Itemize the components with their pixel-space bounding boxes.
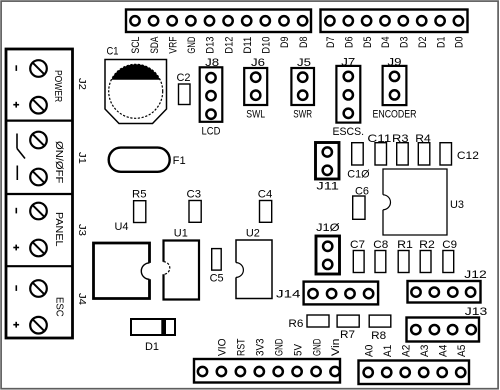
svg-text:D13: D13 [205,37,217,54]
svg-text:U3: U3 [450,199,464,211]
capacitor C4 body [260,201,272,223]
svg-text:D1: D1 [145,341,159,353]
svg-text:VRF: VRF [167,36,179,53]
screw terminal J1 pin 2 [30,169,47,186]
svg-text:GND: GND [311,338,323,356]
svg-text:R8: R8 [371,330,386,342]
svg-text:J2: J2 [76,78,87,90]
screw terminal J2 pin 2 [30,97,47,114]
header J14 pin 4 [364,289,373,298]
pin RST [236,367,245,376]
svg-text:J9: J9 [388,56,402,68]
svg-text:D1: D1 [435,37,447,48]
IC U4 body [94,243,150,299]
svg-text:C8: C8 [373,239,388,251]
pin D3 [399,16,408,25]
header J12 pin 3 [448,287,457,296]
header J5 body [291,68,314,105]
svg-text:J8: J8 [205,57,219,69]
header J14 body [304,282,379,305]
header J14 pin 1 [308,289,317,298]
svg-text:J1Ø: J1Ø [316,222,340,234]
pin A2 [401,368,410,377]
svg-text:VIO: VIO [217,338,229,356]
svg-text:J1: J1 [76,152,87,164]
header J8 body [200,67,223,122]
svg-text:C1Ø: C1Ø [347,168,370,180]
svg-text:PANEL: PANEL [53,212,65,247]
pin Vin [330,367,339,376]
IC U1 body [164,241,200,300]
IC U3 notch [383,195,391,210]
svg-text:R2: R2 [419,239,435,251]
svg-text:R1: R1 [397,239,413,251]
svg-text:D6: D6 [344,37,356,48]
svg-text:C4: C4 [258,188,273,200]
minus mark J3 [15,208,17,214]
header J8 pin 2 [206,91,215,100]
svg-text:J7: J7 [341,56,355,68]
header J13 pin 3 [448,325,457,334]
svg-text:Vin: Vin [330,339,342,357]
svg-text:J11: J11 [316,180,339,192]
svg-text:D11: D11 [242,37,254,54]
svg-text:POWER: POWER [52,70,64,103]
svg-text:A4: A4 [437,345,449,357]
diode D1 body [131,319,175,335]
header J14 pin 2 [327,289,336,298]
svg-text:3V3: 3V3 [255,339,267,357]
svg-text:U2: U2 [246,227,260,239]
header J8 pin 3 [206,110,215,119]
svg-text:D5: D5 [362,37,374,48]
svg-text:A0: A0 [363,345,375,357]
header J5 pin 2 [298,91,307,100]
header J7 pin 2 [344,90,353,99]
svg-text:D2: D2 [417,37,429,48]
pin D12 [223,16,232,25]
svg-text:GND: GND [273,338,285,356]
capacitor C3 body [189,201,201,223]
header J10 body [316,236,340,274]
svg-text:C1: C1 [107,46,119,58]
header J8 pin 1 [206,73,215,82]
pin D11 [242,16,251,25]
svg-text:J4: J4 [76,293,87,305]
resistor R4 body [418,143,430,165]
svg-text:F1: F1 [173,155,186,167]
capacitor C9 body [443,251,454,273]
pin A1 [382,368,391,377]
header J12 pin 2 [430,287,439,296]
header J6 body [244,68,267,105]
svg-text:D0: D0 [454,37,466,48]
header J6 pin 2 [251,91,260,100]
pin GND [311,367,320,376]
pin A3 [419,368,428,377]
pin header bottom-left (power) body [194,359,340,383]
svg-text:ESC: ESC [53,297,65,317]
header J13 pin 2 [430,325,439,334]
svg-text:R4: R4 [415,133,431,145]
svg-text:J5: J5 [297,57,311,69]
header J10 pin 2 [323,260,332,269]
pin SDA [149,16,158,25]
capacitor C1 circle [109,64,163,118]
header J7 pin 1 [344,72,353,81]
resistor R1 body [398,251,409,273]
terminal block divider 2 [6,193,73,195]
header J6 pin 1 [251,73,260,82]
svg-text:C5: C5 [210,273,224,285]
pin D7 [325,16,334,25]
header J7 pin 3 [344,109,353,118]
terminal block divider 1 [6,119,73,121]
svg-text:R3: R3 [392,133,409,145]
pin D10 [261,16,270,25]
header J7 body [336,66,360,123]
pin D6 [344,16,353,25]
resistor R7 body [337,315,359,327]
pin SCL [130,16,139,25]
svg-text:R6: R6 [288,318,303,330]
svg-text:J6: J6 [251,57,265,69]
screw terminal J4 pin 2 [30,317,47,334]
terminal block divider 3 [6,265,73,267]
pin GND [274,367,283,376]
pin D4 [380,16,389,25]
pin header bottom-right (analog) body [359,361,470,385]
svg-text:R5: R5 [132,188,147,200]
plus mark J4 [13,324,19,326]
svg-text:RST: RST [236,338,248,356]
svg-text:SCL: SCL [130,37,142,54]
IC U3 body [383,169,447,235]
pin 5V [292,367,301,376]
IC U1 notch [164,262,170,275]
svg-text:C2: C2 [177,72,191,84]
svg-text:ESCS.: ESCS. [333,126,365,138]
fuse F1 body [109,148,170,172]
capacitor C12 body [440,143,452,165]
resistor R3 body [397,143,409,165]
IC U2 body [236,240,272,299]
capacitor C1 polarity fill [111,64,160,79]
screw terminal J3 pin 2 [30,240,47,257]
svg-text:A1: A1 [382,345,394,357]
capacitor C6 body [353,196,365,219]
pin GND [186,16,195,25]
header J10 pin 1 [323,242,332,251]
svg-text:J12: J12 [464,269,487,281]
svg-text:A3: A3 [419,345,431,357]
header J13 pin 4 [467,325,476,334]
svg-text:U1: U1 [174,227,188,239]
svg-text:D4: D4 [380,37,392,48]
screw terminal J3 pin 1 [30,203,47,220]
svg-text:J3: J3 [76,224,87,236]
pin 3V3 [255,367,264,376]
svg-text:5V: 5V [292,343,304,356]
terminal block body [6,49,73,338]
pin VRF [168,16,177,25]
pin A5 [456,368,465,377]
pin D5 [362,16,371,25]
resistor R8 body [369,315,391,327]
header J12 pin 4 [466,287,475,296]
header J13 pin 1 [411,325,420,334]
pin D9 [279,16,288,25]
header J14 pin 3 [345,289,354,298]
plus mark J2 [13,104,19,106]
svg-text:LCD: LCD [202,125,221,137]
screw terminal J4 pin 1 [30,280,47,297]
capacitor C5 body [212,249,222,271]
svg-text:D8: D8 [298,37,310,48]
header J12 body [408,281,481,303]
header J11 pin 2 [323,166,332,175]
pin A4 [438,368,447,377]
switch symbol J1 [16,134,18,149]
pin D2 [417,16,426,25]
svg-text:A2: A2 [400,345,412,357]
resistor R6 body [307,315,329,327]
svg-text:ENCODER: ENCODER [372,109,416,121]
resistor R2 body [420,251,431,273]
svg-text:SDA: SDA [149,36,161,53]
pin header top-right (D7..D0) body [321,10,468,33]
capacitor C10 body [352,143,364,165]
svg-text:SWL: SWL [246,109,265,121]
resistor R5 body [134,201,146,223]
pin D0 [454,16,463,25]
svg-text:D7: D7 [325,37,337,48]
svg-text:C3: C3 [187,188,202,200]
pin (unlabeled) [198,367,207,376]
header J9 pin 2 [390,90,399,99]
svg-text:GND: GND [186,37,198,54]
svg-text:SWR: SWR [293,109,312,121]
svg-text:ØN/ØFF: ØN/ØFF [53,141,65,183]
header J11 body [316,143,340,180]
capacitor C8 body [375,251,386,273]
svg-text:D10: D10 [261,37,273,54]
pin VIO [217,367,226,376]
pin A0 [364,368,373,377]
IC U2 notch [236,263,243,278]
svg-text:D12: D12 [223,37,235,54]
header J11 pin 1 [323,147,332,156]
svg-text:J14: J14 [276,289,301,301]
svg-text:C11: C11 [367,133,391,145]
plus mark J3 [13,247,19,249]
header J9 body [383,66,407,105]
screw terminal J2 pin 1 [30,60,47,77]
svg-text:R7: R7 [340,329,355,341]
minus mark J2 [15,65,17,71]
pin D1 [435,16,444,25]
capacitor C11 body [375,143,387,165]
svg-text:D3: D3 [399,37,411,48]
capacitor C2 body [179,84,191,105]
capacitor C1 outline [105,60,167,124]
svg-text:C12: C12 [457,150,479,162]
header J9 pin 1 [390,72,399,81]
svg-text:C9: C9 [442,239,457,251]
header J5 pin 1 [298,73,307,82]
minus mark J4 [15,285,17,291]
svg-text:U4: U4 [115,221,129,233]
header J12 pin 1 [411,287,420,296]
diode D1 cathode band [161,319,166,335]
pin header top-left (SCL..D8) body [126,10,311,33]
IC U4 notch [141,263,149,279]
svg-text:D9: D9 [279,37,291,48]
screw terminal J1 pin 1 [30,132,47,149]
svg-text:J13: J13 [465,306,488,318]
pin D8 [298,16,307,25]
header J13 body [407,318,480,342]
svg-text:C7: C7 [350,239,365,251]
svg-text:A5: A5 [456,345,468,357]
capacitor C7 body [353,251,364,273]
pin D13 [205,16,214,25]
